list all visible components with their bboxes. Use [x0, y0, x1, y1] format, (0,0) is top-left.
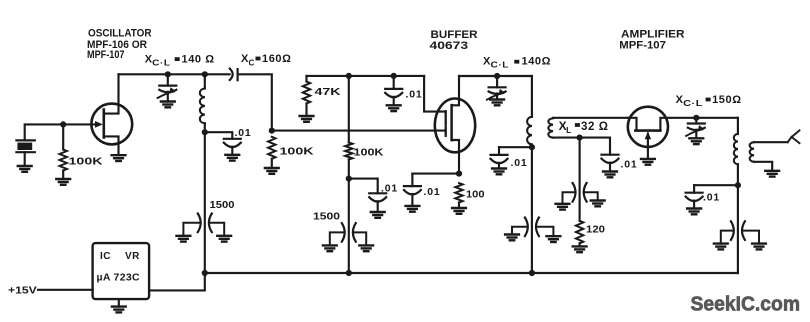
svg-text:VR: VR: [125, 251, 140, 262]
svg-text:160Ω: 160Ω: [262, 53, 292, 65]
svg-text:47K: 47K: [315, 86, 342, 98]
svg-text:1500: 1500: [210, 199, 235, 211]
svg-text:µA 723C: µA 723C: [97, 272, 140, 284]
svg-text:C·L: C·L: [491, 61, 509, 70]
svg-text:150Ω: 150Ω: [712, 94, 742, 106]
svg-text:.01: .01: [621, 159, 638, 171]
svg-text:MPF-107: MPF-107: [87, 49, 125, 61]
svg-text:.01: .01: [511, 157, 528, 169]
svg-text:120: 120: [586, 224, 605, 236]
svg-text:.01: .01: [703, 191, 720, 203]
svg-text:100K: 100K: [280, 146, 315, 158]
svg-text:140 Ω: 140 Ω: [182, 54, 215, 66]
svg-text:SeekIC.com: SeekIC.com: [691, 293, 801, 316]
svg-text:.01: .01: [381, 182, 398, 194]
svg-text:1500: 1500: [313, 211, 340, 223]
svg-text:.01: .01: [235, 127, 252, 139]
svg-text:100K: 100K: [69, 156, 104, 168]
svg-text:+15V: +15V: [8, 286, 37, 297]
svg-text:40673: 40673: [430, 40, 469, 52]
svg-text:100: 100: [466, 189, 485, 201]
svg-text:.01: .01: [406, 88, 423, 100]
svg-text:MPF-107: MPF-107: [619, 40, 666, 52]
svg-text:140Ω: 140Ω: [522, 56, 552, 68]
svg-text:32 Ω: 32 Ω: [581, 121, 609, 133]
svg-text:OSCILLATOR: OSCILLATOR: [88, 28, 152, 40]
svg-text:IC: IC: [100, 251, 111, 262]
svg-text:100K: 100K: [354, 147, 384, 159]
svg-text:L: L: [566, 125, 572, 135]
svg-text:C·L: C·L: [152, 59, 170, 68]
svg-text:.01: .01: [424, 186, 441, 198]
svg-text:C·L: C·L: [683, 99, 703, 108]
svg-text:C: C: [249, 58, 255, 67]
